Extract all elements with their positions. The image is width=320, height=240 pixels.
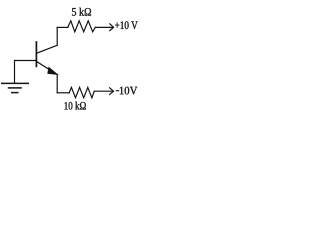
- wire base: [15, 60, 37, 62]
- wire arrow shaft to +10V: [95, 26, 113, 28]
- label -10V dash: [116, 90, 120, 92]
- label 5 kOhm: [72, 8, 91, 16]
- arrowhead -10V: [110, 88, 114, 95]
- wire ground stub: [14, 61, 16, 84]
- label +10 V: [115, 21, 138, 29]
- transistor Q1 base bar: [35, 42, 37, 66]
- ground bar 3: [12, 92, 18, 94]
- wire top horizontal: [57, 26, 67, 28]
- ground bar 1: [2, 82, 29, 84]
- wire arrow shaft to -10V: [94, 90, 113, 92]
- wire emitter vertical: [56, 75, 58, 93]
- ground bar 2: [9, 87, 22, 89]
- label 10 kOhm: [65, 102, 86, 110]
- wire collector diagonal: [36, 45, 57, 53]
- arrowhead +10V: [110, 24, 114, 31]
- wire bottom horizontal: [57, 92, 69, 94]
- resistor R2 10 kOhm zigzag: [69, 87, 94, 97]
- transistor Q1 emitter diagonal: [37, 61, 58, 74]
- resistor R1 5 kOhm zigzag: [68, 21, 96, 32]
- label -10V: [120, 87, 138, 95]
- transistor Q1 emitter arrowhead: [48, 68, 57, 75]
- wire collector vertical: [56, 27, 58, 45]
